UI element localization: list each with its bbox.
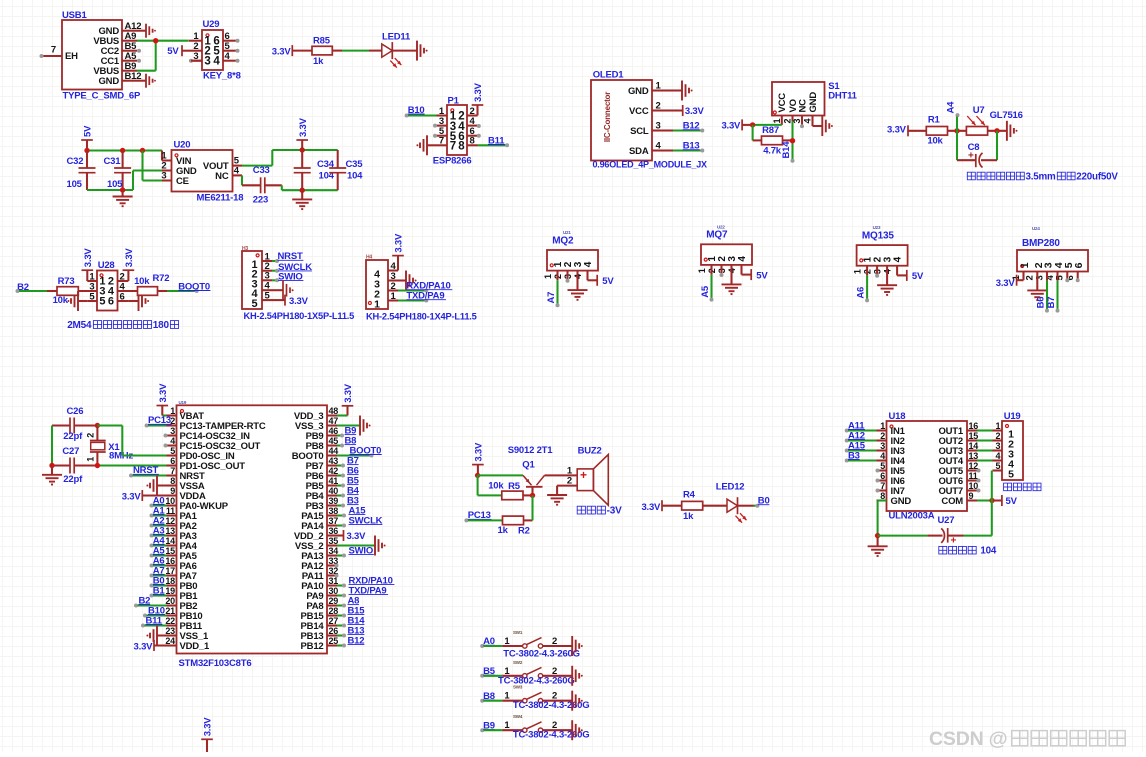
svg-text:104: 104	[980, 546, 996, 557]
capacitor U27 monolithic	[878, 515, 992, 546]
wire U19 pin5 to 5V	[991, 471, 993, 536]
svg-text:MQ2: MQ2	[552, 235, 574, 246]
svg-text:1: 1	[1019, 262, 1031, 268]
svg-text:40: 40	[329, 486, 339, 496]
svg-text:VCC: VCC	[777, 93, 788, 113]
svg-text:LED11: LED11	[382, 31, 411, 42]
svg-text:3.3V: 3.3V	[685, 106, 705, 117]
svg-text:U20: U20	[174, 140, 191, 151]
wire VOUT to 3.3V rail	[233, 150, 338, 166]
svg-text:15: 15	[969, 431, 979, 441]
ground at VSS_1	[146, 626, 176, 646]
net label B0	[150, 575, 167, 587]
svg-text:ULN2003A: ULN2003A	[889, 511, 935, 522]
microcontroller U1 STM32F103C8T6	[165, 400, 338, 669]
junction C32	[84, 148, 89, 153]
svg-text:3.3V: 3.3V	[203, 717, 214, 737]
svg-text:GND: GND	[808, 92, 819, 113]
svg-text:3.3V: 3.3V	[641, 502, 661, 513]
svg-text:U27: U27	[938, 515, 955, 526]
power flag 3.3V at R85	[272, 45, 312, 58]
net label B8	[337, 436, 356, 448]
wire CE pin3 of U20	[143, 151, 172, 181]
svg-text:R85: R85	[313, 36, 331, 47]
svg-text:GND: GND	[628, 86, 649, 97]
svg-text:46: 46	[329, 426, 339, 436]
svg-text:TC-3802-4.3-260G: TC-3802-4.3-260G	[498, 675, 575, 686]
svg-text:TYPE_C_SMD_6P: TYPE_C_SMD_6P	[63, 90, 142, 101]
svg-text:4: 4	[892, 256, 903, 262]
svg-text:3: 3	[656, 121, 661, 132]
svg-text:4.7k: 4.7k	[763, 146, 782, 157]
svg-text:4: 4	[995, 451, 1000, 461]
svg-text:5: 5	[99, 295, 105, 307]
svg-text:8: 8	[470, 136, 475, 147]
svg-text:3: 3	[880, 441, 885, 451]
ground at OLED1 pin1	[668, 81, 693, 101]
unconnected dots BMP280 pins 5 6	[1065, 272, 1079, 283]
ground at VSSA	[146, 476, 176, 496]
svg-text:1: 1	[852, 269, 862, 274]
LED LED11	[382, 31, 411, 67]
svg-text:OLED1: OLED1	[593, 70, 625, 81]
wire C32 C31 bottom rail	[87, 189, 133, 191]
svg-text:23: 23	[165, 626, 175, 636]
ground at MQ7 pin3	[722, 265, 742, 294]
svg-text:R72: R72	[153, 273, 170, 284]
text stepper motor chinese	[1004, 483, 1041, 491]
net label B1	[150, 585, 167, 597]
power flag 3.3V at H3 pin5	[272, 295, 309, 307]
svg-text:5V: 5V	[167, 46, 179, 57]
unconnected dots pins 33 32	[335, 564, 339, 578]
svg-text:34: 34	[329, 546, 339, 556]
power flag 3.3V at VDD_1	[134, 640, 177, 652]
svg-text:220uf50V: 220uf50V	[1076, 172, 1118, 183]
net label TXD/PA9 right	[337, 586, 388, 598]
net label B15	[337, 606, 365, 618]
svg-text:22pf: 22pf	[63, 474, 83, 485]
ground at BUZ2 pin2	[547, 486, 577, 505]
net label TXD/PA9 H4	[398, 291, 446, 303]
junction U7 right	[988, 128, 1007, 133]
svg-text:3.3V: 3.3V	[474, 442, 485, 462]
ground at SW4	[572, 720, 583, 740]
net label B3 at U18 IN4	[845, 450, 877, 462]
resistor R73 10k	[53, 276, 79, 306]
svg-text:U24: U24	[1032, 226, 1040, 231]
net label A2	[150, 515, 167, 527]
svg-text:26: 26	[329, 626, 339, 636]
net label B3	[337, 496, 359, 508]
switch SW4 TC-3802	[480, 714, 589, 740]
gas sensor MQ7	[697, 224, 752, 273]
svg-text:3.3V: 3.3V	[996, 278, 1016, 289]
net label PC13 at R2	[464, 510, 502, 522]
svg-text:7: 7	[880, 481, 885, 491]
svg-text:15: 15	[165, 546, 175, 556]
svg-text:5V: 5V	[912, 271, 924, 282]
svg-text:TC-3802-4.3-260G: TC-3802-4.3-260G	[513, 730, 590, 741]
svg-text:ESP8266: ESP8266	[433, 155, 472, 166]
svg-text:1k: 1k	[683, 511, 694, 522]
unconnected dots P1 pins 3 5	[433, 124, 437, 138]
svg-text:C35: C35	[346, 159, 364, 170]
svg-text:SW1: SW1	[513, 630, 523, 635]
svg-text:5V: 5V	[83, 125, 94, 137]
net label NRST left	[129, 465, 167, 477]
power flag 5V at U20 input	[81, 125, 93, 151]
svg-text:SW4: SW4	[513, 714, 523, 719]
connector P1 ESP8266	[433, 95, 478, 166]
net label A15 at U18 IN3	[845, 440, 877, 452]
svg-text:R5: R5	[508, 481, 521, 492]
ground at U7	[1007, 121, 1018, 141]
wire NC pin4	[233, 175, 261, 185]
svg-text:1: 1	[772, 119, 782, 124]
power flag 3.3V bottom	[201, 717, 213, 752]
junction X1 top	[95, 423, 100, 428]
net label B2 left	[134, 595, 167, 607]
svg-text:7: 7	[170, 466, 175, 476]
svg-text:+: +	[951, 536, 957, 547]
svg-text:5V: 5V	[602, 276, 614, 287]
svg-text:C26: C26	[67, 406, 84, 417]
svg-text:3.3V: 3.3V	[124, 248, 135, 268]
capacitor C27 22pf	[62, 446, 83, 485]
svg-text:+: +	[580, 468, 587, 482]
svg-text:COM: COM	[941, 496, 963, 507]
svg-text:A5: A5	[700, 285, 711, 298]
svg-text:S9012 2T1: S9012 2T1	[508, 445, 554, 456]
svg-text:B14: B14	[781, 141, 792, 159]
svg-text:1: 1	[697, 268, 707, 273]
power flag 3.3V at Q1	[472, 442, 484, 475]
svg-text:1k: 1k	[498, 525, 509, 536]
resistor R4 1k	[682, 489, 703, 522]
svg-text:U21: U21	[563, 230, 571, 235]
unconnected pin dots B5 A5	[137, 49, 141, 63]
svg-text:3.3V: 3.3V	[134, 641, 154, 652]
wire COM to 5V	[977, 499, 1002, 501]
text buzzer chinese	[577, 506, 622, 517]
svg-text:48: 48	[329, 406, 339, 416]
ground at SW1	[572, 636, 583, 656]
svg-text:10k: 10k	[134, 276, 150, 287]
photoresistor U7 GL7516	[966, 105, 1022, 135]
power flag 3.3V at BMP280 pin1	[996, 272, 1024, 290]
svg-text:18: 18	[165, 576, 175, 586]
net label B5	[337, 476, 360, 488]
unconnected dots P1 pins 4 6	[477, 124, 481, 138]
svg-text:SDA: SDA	[629, 146, 649, 157]
svg-text:5: 5	[995, 461, 1000, 471]
ground at USB1 pin B12	[137, 74, 156, 88]
junction COM 5V	[989, 498, 994, 503]
net label B2	[16, 282, 58, 293]
net label RXD/PA10 right	[337, 576, 394, 588]
svg-text:2: 2	[656, 101, 661, 112]
switch SW1 TC-3802	[480, 630, 580, 660]
crystal X1 8MHz	[85, 426, 133, 466]
net label A1	[150, 505, 167, 517]
svg-text:3.3V: 3.3V	[887, 125, 907, 136]
svg-text:3.3V: 3.3V	[272, 47, 292, 58]
wire DHT11 VO / B14	[783, 121, 793, 159]
wire C33 to bottom rail	[265, 185, 338, 190]
svg-text:1: 1	[880, 421, 885, 431]
power flag 3.3V at U28 pin1	[82, 248, 94, 281]
ground at H4 pin3	[398, 271, 417, 291]
svg-text:10k: 10k	[53, 295, 69, 306]
wire OUT3 to U19 pin3	[977, 449, 1002, 451]
ground at U18	[868, 536, 888, 556]
ground at P1 pin7	[416, 135, 436, 155]
svg-text:B7: B7	[1046, 297, 1057, 309]
svg-text:35: 35	[329, 536, 339, 546]
ground at VSS_3	[337, 416, 371, 436]
capacitor C33 223	[253, 165, 270, 205]
net label SWIO right	[337, 546, 374, 558]
connector U19 stepper motor	[993, 411, 1024, 480]
svg-text:22: 22	[165, 616, 175, 626]
svg-text:3.3V: 3.3V	[473, 82, 484, 102]
capacitor C8 electrolytic	[957, 131, 997, 168]
wire R4 to LED12	[703, 505, 727, 507]
junction Q1 emitter	[475, 473, 480, 478]
header H4 KH-2.54PH180-1X4P	[366, 255, 477, 322]
power flag 3.3V at VDD_3	[337, 383, 354, 415]
svg-text:KEY_8*8: KEY_8*8	[203, 71, 241, 82]
svg-text:1: 1	[374, 299, 380, 311]
svg-text:U23: U23	[873, 225, 881, 230]
sensor S1 DHT11	[772, 81, 858, 124]
unconnected dot DHT11 NC	[800, 121, 804, 128]
unconnected dot MQ135 pin2	[875, 266, 879, 278]
svg-text:BMP280: BMP280	[1022, 238, 1060, 249]
resistor R85 1k	[312, 36, 332, 67]
svg-text:20: 20	[165, 596, 175, 606]
svg-text:9: 9	[969, 491, 974, 501]
switch SW2 TC-3802	[480, 660, 574, 687]
svg-text:4: 4	[803, 119, 813, 124]
svg-text:IIC-Connector: IIC-Connector	[603, 92, 612, 142]
transistor Q1 S9012	[508, 445, 554, 495]
power flag 3.3V at DHT11	[721, 119, 752, 131]
display module OLED1 0.96OLED_4P_MODULE_JX	[591, 70, 707, 170]
wire U18 GND	[878, 501, 887, 536]
svg-text:10: 10	[969, 481, 979, 491]
svg-text:4: 4	[583, 261, 594, 267]
svg-text:21: 21	[165, 606, 175, 616]
net label B10 left	[143, 605, 167, 617]
ground at C27	[42, 466, 62, 485]
svg-text:7: 7	[450, 141, 456, 153]
svg-text:3.3V: 3.3V	[347, 531, 367, 542]
net label B6 at BMP280 pin3	[1035, 272, 1049, 313]
svg-text:45: 45	[329, 436, 339, 446]
capacitor C32 105	[67, 151, 96, 191]
svg-text:38: 38	[329, 506, 339, 516]
svg-text:+: +	[968, 151, 974, 162]
net label BOOT0	[167, 281, 210, 293]
svg-text:5: 5	[1008, 469, 1014, 481]
net label A5	[150, 545, 167, 557]
net label A6 at MQ135 pin1	[855, 266, 869, 303]
svg-text:EH: EH	[65, 51, 78, 62]
unconnected dots U18 OUT5-7	[977, 469, 981, 493]
buzzer BUZ2	[567, 445, 608, 505]
svg-text:10k: 10k	[927, 136, 943, 147]
svg-text:C31: C31	[104, 156, 122, 167]
net label A12 at U18 IN2	[845, 430, 877, 442]
power flag 5V at U29 pin2	[167, 45, 189, 57]
net label A6	[150, 555, 167, 567]
svg-text:43: 43	[329, 456, 339, 466]
svg-text:180: 180	[153, 320, 170, 331]
junction X1 bottom	[95, 463, 100, 468]
junction GND rail	[875, 533, 880, 538]
svg-text:R4: R4	[683, 489, 696, 500]
svg-text:3.3V: 3.3V	[122, 491, 142, 502]
wire X1 to PD0	[97, 426, 166, 456]
svg-text:3.3V: 3.3V	[394, 233, 405, 253]
value text electrolytic cap	[967, 172, 1118, 183]
svg-text:9: 9	[170, 486, 175, 496]
svg-text:A7: A7	[546, 292, 557, 304]
net label B6	[337, 466, 359, 478]
junction 3.3V R87	[750, 122, 755, 127]
unconnected dot MQ2 pin2	[566, 271, 570, 283]
wire crystal bottom	[52, 464, 167, 466]
power flag 5V at COM	[1002, 495, 1018, 507]
junction R87 VO	[790, 138, 795, 143]
svg-text:C32: C32	[67, 156, 84, 167]
svg-text:3.3V: 3.3V	[721, 120, 741, 131]
net label B10	[405, 105, 437, 118]
net label B14	[337, 616, 365, 628]
svg-text:SW2: SW2	[513, 660, 523, 665]
junction VBUS	[153, 38, 158, 43]
net label B13	[337, 626, 364, 638]
svg-text:PB12: PB12	[301, 641, 324, 652]
ground at U28 pin6	[128, 291, 149, 311]
net label A4	[946, 101, 960, 131]
net label NRST H3	[272, 251, 303, 263]
junction node A4	[954, 128, 959, 133]
svg-text:6: 6	[120, 291, 125, 302]
wire R85 to LED11	[332, 50, 382, 52]
power flag 3.3V at R1	[887, 125, 926, 137]
svg-text:7: 7	[51, 45, 56, 56]
svg-text:3: 3	[1034, 275, 1045, 280]
ground at LED11	[392, 41, 427, 61]
ground at U28 pin5	[67, 291, 87, 311]
svg-text:3: 3	[161, 171, 166, 182]
svg-text:6: 6	[170, 456, 175, 466]
text 2M54 pin header chinese	[67, 320, 178, 331]
ground at SW3	[572, 691, 583, 711]
net label B12	[668, 121, 704, 133]
svg-text:CSDN @: CSDN @	[929, 728, 1008, 750]
svg-text:U22: U22	[717, 224, 725, 229]
net label PC13	[145, 415, 172, 427]
ground at BMP280 pin2	[1027, 272, 1047, 301]
svg-text:U19: U19	[179, 400, 187, 405]
svg-text:LED12: LED12	[716, 482, 745, 493]
svg-text:30: 30	[329, 586, 339, 596]
svg-text:5V: 5V	[1006, 496, 1018, 507]
svg-text:11: 11	[166, 506, 175, 516]
svg-text:8: 8	[458, 141, 465, 153]
wire OUT4 to U19 pin4	[977, 459, 1002, 461]
svg-text:GL7516: GL7516	[990, 110, 1023, 121]
svg-text:3: 3	[792, 119, 802, 124]
svg-text:1: 1	[995, 421, 1000, 431]
svg-text:MQ7: MQ7	[706, 230, 728, 241]
watermark CSDN	[929, 728, 1125, 750]
svg-text:2: 2	[880, 431, 885, 441]
svg-text:3.3V: 3.3V	[83, 248, 94, 268]
wire crystal top	[52, 426, 97, 466]
resistor R72 10k	[134, 273, 169, 295]
svg-text:6: 6	[880, 471, 885, 481]
svg-text:19: 19	[165, 586, 175, 596]
svg-text:MQ135: MQ135	[862, 230, 894, 241]
svg-text:11: 11	[969, 471, 978, 481]
svg-text:5: 5	[170, 446, 175, 456]
net label A3	[150, 525, 167, 537]
svg-text:10: 10	[165, 496, 175, 506]
wire R1 to U7	[948, 130, 967, 132]
svg-text:3.5mm: 3.5mm	[1026, 172, 1057, 183]
wire VBUS net	[137, 41, 189, 71]
power flag 3.3V at VDDA	[122, 490, 177, 502]
junction C34 bottom	[300, 188, 305, 193]
net label B4	[337, 486, 360, 498]
net label RXD/PA10 H4	[398, 281, 452, 293]
svg-text:C27: C27	[62, 446, 79, 457]
svg-text:41: 41	[329, 476, 339, 486]
svg-text:R2: R2	[518, 526, 530, 537]
svg-text:KH-2.54PH180-1X5P-L11.5: KH-2.54PH180-1X5P-L11.5	[244, 311, 355, 321]
svg-text:3.3V: 3.3V	[298, 117, 309, 137]
svg-text:36: 36	[329, 526, 339, 536]
wire R73 to U28	[78, 290, 97, 292]
power flag 3.3V at U20 output	[296, 117, 308, 150]
switch SW3 TC-3802	[480, 685, 589, 712]
net label B7	[337, 456, 359, 468]
power flag 5V at MQ7 pin4	[742, 265, 769, 281]
wire 3.3V to Q1	[478, 474, 523, 476]
capacitor C31 105	[104, 151, 132, 191]
power flag 3.3V at OLED1 pin2	[668, 105, 705, 117]
connector U28 2x3	[87, 260, 137, 310]
power flag 3.3V at VDD_2	[337, 530, 366, 542]
svg-text:A4: A4	[946, 101, 957, 114]
sensor U24 BMP280	[1011, 226, 1088, 280]
junction bottom rail	[120, 187, 125, 192]
net label A5 at MQ7 pin1	[700, 265, 714, 302]
wire OUT2 to U19 pin2	[977, 439, 1002, 441]
svg-text:39: 39	[329, 496, 339, 506]
wire GND pin2 of U20	[133, 171, 172, 191]
svg-text:Q1: Q1	[522, 460, 535, 471]
svg-text:2: 2	[995, 431, 1000, 441]
svg-text:KH-2.54PH180-1X4P-L11.5: KH-2.54PH180-1X4P-L11.5	[366, 312, 477, 322]
driver U18 ULN2003A	[877, 411, 979, 521]
net label SWIO H3	[272, 272, 303, 283]
